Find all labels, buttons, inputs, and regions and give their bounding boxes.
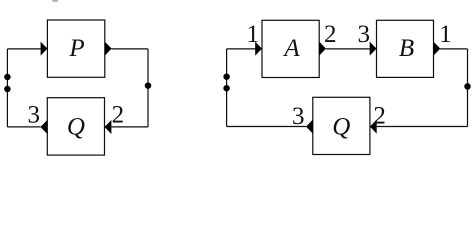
block B [377,20,434,77]
wire: P output to right vertical [111,48,148,50]
wire: B output to right vertical [440,48,467,50]
junction dot lower on left vertical [4,86,10,93]
wire: bottom horizontal from Q output to left vertical [7,126,40,128]
svg-text:A: A [282,35,300,62]
svg-text:2: 2 [373,102,386,129]
arrowhead: out of Q, pointing left [41,120,48,134]
wire: from right vertical into Q input [377,126,468,128]
wire: input into P from left vertical [7,48,40,50]
svg-text:3: 3 [27,101,40,128]
svg-text:3: 3 [358,21,371,48]
svg-text:P: P [68,35,84,62]
wire: A output to B input [326,48,370,50]
wire: bottom horizontal from Q output to left vertical [227,126,307,128]
arrowhead: into Q, pointing left [105,120,112,134]
svg-text:2: 2 [112,102,125,129]
junction dot upper on left vertical [4,74,10,81]
arrowhead: into P, pointing right [41,42,48,56]
svg-text:1: 1 [247,21,260,48]
block Q of right diagram [313,97,370,154]
wire: right vertical of right diagram [467,49,469,127]
arrowhead: out of P, pointing right [105,42,112,56]
wire: from right vertical into Q input [111,126,148,128]
svg-text:B: B [399,35,414,62]
arrowhead: out of A, pointing right [319,42,326,56]
junction dot on right vertical [145,82,152,89]
block Q of left diagram [47,98,104,155]
block P [47,20,104,77]
wire: left vertical of left diagram [6,49,8,127]
svg-text:1: 1 [439,21,452,48]
svg-text:Q: Q [332,113,350,140]
wire: right vertical of left diagram [147,49,149,127]
svg-text:Q: Q [67,114,85,141]
arrowhead: out of B, pointing right [434,42,441,56]
arrowhead: out of right Q, pointing left [306,120,313,134]
junction dot lower on left vertical of right diagram [223,85,230,92]
arrowhead: into A, pointing right [255,42,262,56]
junction dot upper on left vertical of right diagram [223,73,230,80]
wire: input into A from left vertical [227,48,256,50]
wire: left vertical of right diagram [226,49,228,127]
cropped text remnant at top edge [52,0,58,2]
block A [262,20,319,77]
arrowhead: into B, pointing right [370,42,377,56]
arrowhead: into right Q, pointing left [370,120,377,134]
svg-text:3: 3 [292,103,305,130]
svg-text:2: 2 [324,21,337,48]
junction dot on right vertical of right diagram [464,83,471,90]
